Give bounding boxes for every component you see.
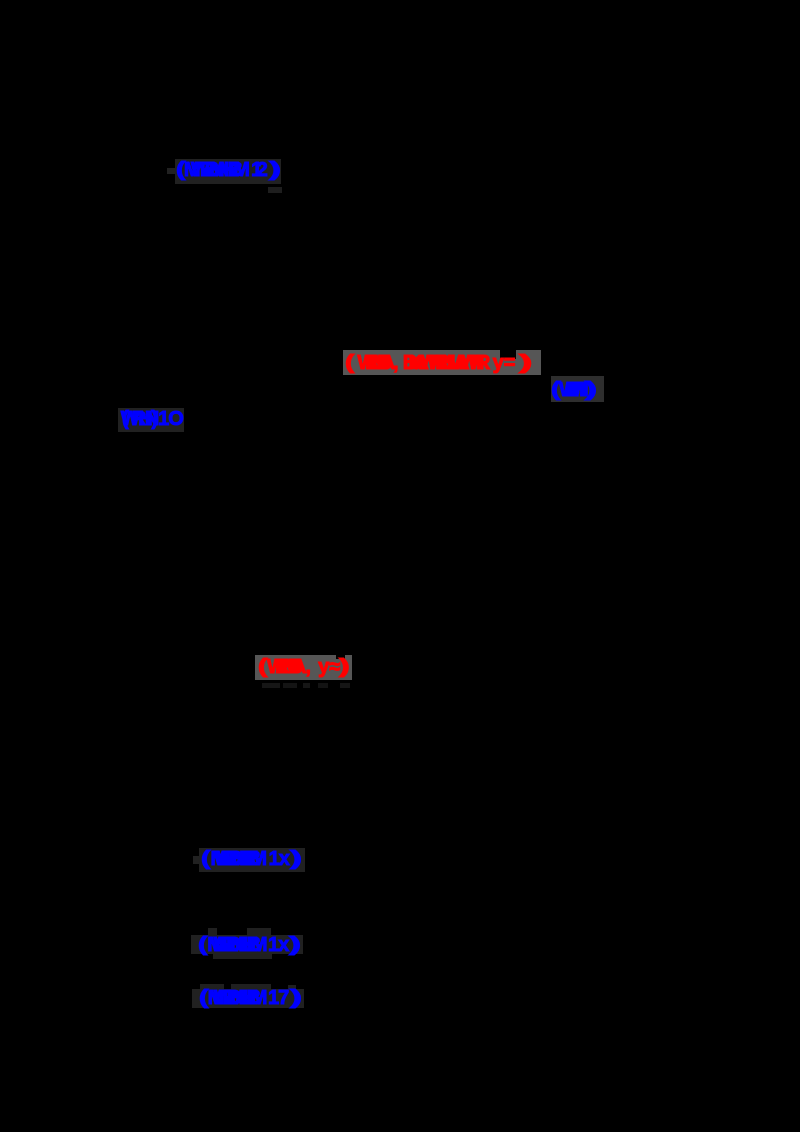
link box E notch (black) — [336, 655, 345, 659]
red citation text E — [258, 657, 345, 677]
link box H upper tabs — [200, 984, 224, 990]
link highlight box A — [175, 159, 281, 184]
link highlight box D — [118, 408, 184, 432]
link highlight box E (gray) — [255, 655, 352, 680]
link box G upper tabs — [208, 928, 217, 936]
blue link text H — [199, 988, 297, 1008]
link box F left nub — [193, 856, 200, 864]
faint text fragments below E — [262, 683, 280, 688]
link highlight box B (gray) — [343, 350, 541, 375]
link highlight box C — [551, 376, 604, 402]
red citation text B — [345, 353, 526, 373]
link box B notch (black) — [500, 350, 516, 359]
link highlight box G — [191, 935, 303, 954]
link box A fragment below-right — [268, 187, 282, 193]
blue citation text C — [551, 380, 591, 400]
blue citation text D — [122, 409, 183, 429]
link highlight box F — [199, 848, 305, 873]
link box A left nub — [167, 168, 175, 174]
link box G lower tab — [213, 954, 272, 959]
citation link text A — [176, 160, 275, 180]
blue link text F — [201, 849, 297, 869]
blue link text G — [198, 935, 296, 955]
link highlight box H — [192, 989, 304, 1008]
